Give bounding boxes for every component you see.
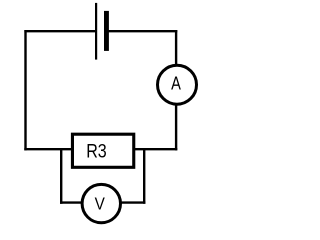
svg-text:V: V xyxy=(95,195,105,214)
voltmeter V1 circle xyxy=(82,184,120,222)
wire top-right horizontal (battery to ammeter branch) xyxy=(106,30,177,32)
wire voltmeter branch left vertical xyxy=(60,148,62,204)
svg-text:R3: R3 xyxy=(86,140,107,162)
wire bottom-right horizontal (resistor R3 to right side) xyxy=(134,148,178,150)
wire right vertical upper (to ammeter) xyxy=(175,30,177,66)
wire top-left horizontal (battery to left side) xyxy=(24,30,96,32)
wire left vertical xyxy=(24,30,26,150)
battery cell: long plate (positive terminal) xyxy=(95,3,97,60)
wire bottom-left horizontal (to resistor R3) xyxy=(24,148,72,150)
wire voltmeter branch right horizontal xyxy=(120,201,145,203)
ammeter A1 circle xyxy=(158,65,197,104)
svg-text:A: A xyxy=(171,73,181,94)
battery cell: short thick plate (negative terminal) xyxy=(104,11,109,51)
resistor R3 box xyxy=(72,134,133,167)
wire right vertical lower (ammeter to bottom) xyxy=(175,104,177,150)
wire voltmeter branch left horizontal xyxy=(60,201,83,203)
wire voltmeter branch right vertical xyxy=(143,148,145,204)
